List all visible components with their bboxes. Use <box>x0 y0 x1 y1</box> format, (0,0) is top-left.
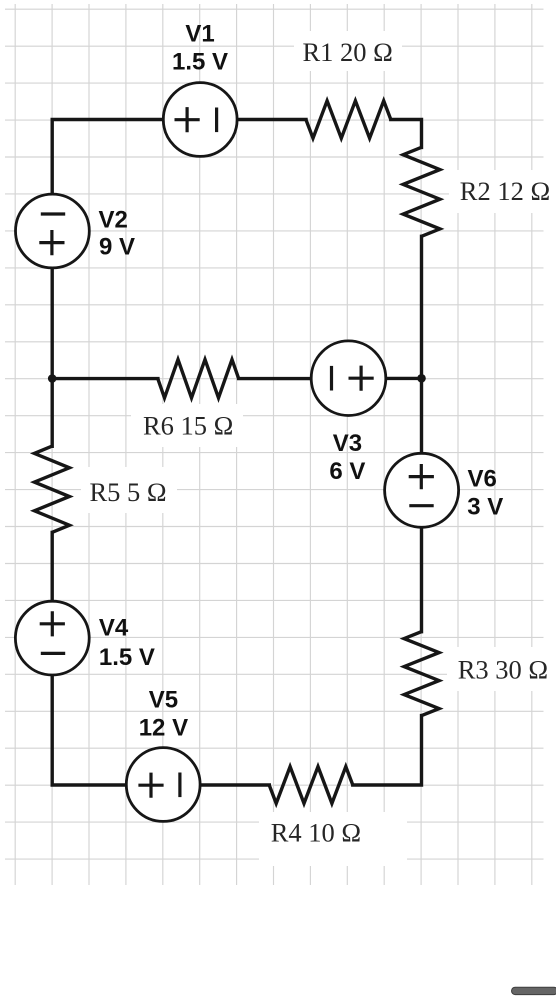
wire: V6 bottom to R3 top <box>420 527 423 631</box>
svg-text:R6 15 Ω: R6 15 Ω <box>143 411 233 441</box>
voltage source V4 (1.5 V) body <box>15 601 89 675</box>
label V1 value text <box>172 21 228 76</box>
svg-text:6 V: 6 V <box>329 458 365 485</box>
wire: V5 left to bottom-left corner up to V4 bottom <box>52 675 126 785</box>
voltage source V2 (9 V) body <box>16 194 90 268</box>
svg-text:1.5 V: 1.5 V <box>172 49 228 76</box>
resistor R5 (5 ohm, left) <box>34 446 69 532</box>
voltage source V3 (6 V) body <box>311 341 386 416</box>
wire: R3 bottom to bottom-right corner to R4 right <box>353 716 422 785</box>
svg-text:V6: V6 <box>468 466 497 493</box>
svg-text:R5 5 Ω: R5 5 Ω <box>90 477 167 507</box>
R1 label background <box>294 31 402 71</box>
voltage source V6 (3 V) body <box>385 453 459 527</box>
resistor R4 (10 ohm, bottom) <box>269 767 353 804</box>
svg-text:V4: V4 <box>99 615 129 642</box>
svg-text:1.5 V: 1.5 V <box>99 644 155 671</box>
voltage source V5 (12 V) body <box>126 748 200 822</box>
label V3 value text <box>329 430 365 485</box>
label V5 value text <box>139 686 188 741</box>
label V2 value text <box>99 206 136 260</box>
R4 label background <box>259 812 407 866</box>
resistor R1 (20 ohm, top) <box>306 101 391 138</box>
resistor R3 (30 ohm, right lower) <box>404 632 439 716</box>
resistor R6 (15 ohm, middle) <box>158 360 239 398</box>
svg-text:12 V: 12 V <box>139 714 188 741</box>
wire: R4 left to V5 right <box>200 783 269 786</box>
svg-text:V2: V2 <box>99 206 128 233</box>
wire: R6 right to V3 left <box>239 377 312 380</box>
R2 label background <box>449 170 556 213</box>
svg-text:3 V: 3 V <box>467 494 503 521</box>
voltage source V1 (1.5 V) body <box>163 83 237 157</box>
resistor R2 (12 ohm, right upper) <box>403 147 440 236</box>
svg-text:9 V: 9 V <box>99 233 135 260</box>
scrollbar thumb bottom-right <box>512 987 556 994</box>
wire: V1 right to R1 left <box>237 118 306 121</box>
svg-text:R1 20 Ω: R1 20 Ω <box>303 37 393 67</box>
svg-text:R2 12 Ω: R2 12 Ω <box>460 176 550 206</box>
wire: left junction to R6 left <box>52 377 158 380</box>
wire: V4 top to R5 bottom <box>51 532 54 601</box>
svg-text:V1: V1 <box>185 21 214 48</box>
wire: left junction up to V2 bottom <box>51 268 54 379</box>
label V4 value text <box>99 615 155 671</box>
R5 label background <box>81 467 177 513</box>
R3 label background <box>447 647 556 691</box>
wire: V2 top to top-left corner to V1 left <box>52 120 163 195</box>
svg-text:R4 10 Ω: R4 10 Ω <box>271 817 361 847</box>
wire: V3 right to right junction <box>386 377 422 380</box>
wire: R2 bottom to right junction <box>420 236 423 378</box>
label V6 value text <box>467 466 503 521</box>
svg-text:V3: V3 <box>333 430 362 457</box>
junction node: left (V2/R5/R6 tee) <box>48 374 57 383</box>
wire: R5 top to left junction <box>51 379 54 447</box>
svg-text:R3 30 Ω: R3 30 Ω <box>458 654 548 684</box>
wire: R1 right to top-right corner down to R2 top <box>391 120 422 148</box>
junction node: right (R2/V3/V6 tee) <box>417 374 426 383</box>
svg-text:V5: V5 <box>149 686 178 713</box>
R6 label background <box>131 404 243 447</box>
wire: right junction to V6 top <box>420 378 423 453</box>
